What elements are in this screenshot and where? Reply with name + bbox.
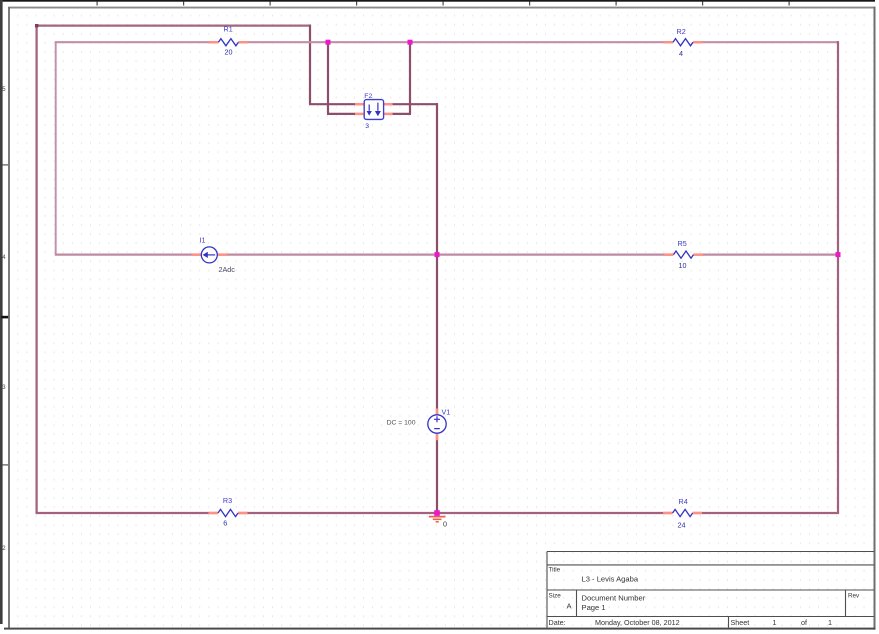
junction at ground x=437 y=513 <box>434 510 440 516</box>
resistor R4 <box>663 497 702 530</box>
svg-text:1: 1 <box>773 618 777 627</box>
CCCS F2 <box>355 93 393 130</box>
svg-text:Sheet: Sheet <box>731 618 750 627</box>
wire: F2 top-row left segment <box>309 103 356 105</box>
svg-text:Size: Size <box>549 593 562 600</box>
svg-text:2Adc: 2Adc <box>219 265 236 274</box>
svg-text:24: 24 <box>678 521 686 530</box>
svg-text:Rev: Rev <box>848 593 860 600</box>
svg-text:20: 20 <box>225 48 233 57</box>
svg-text:Date:: Date: <box>549 618 566 627</box>
wire: F2 top-row right segment <box>392 103 439 105</box>
svg-text:0: 0 <box>443 520 447 529</box>
svg-text:I1: I1 <box>200 236 206 245</box>
junction at x=328 y=42 <box>326 40 331 45</box>
junction at x=437 y=254.6 <box>435 252 440 257</box>
svg-text:R3: R3 <box>223 496 232 505</box>
voltage source V1 <box>387 408 451 441</box>
svg-text:of: of <box>801 618 807 627</box>
current source I1 <box>192 236 236 274</box>
svg-text:F2: F2 <box>364 93 372 100</box>
title block <box>547 552 874 628</box>
wire: center vertical x=437 (F2 to V1 to ground) <box>436 103 438 513</box>
wire: I1/R5 row (y=254.6) <box>55 254 838 256</box>
wire: outer loop left vertical (x=36.6) <box>35 24 38 513</box>
wire: right vertical (x=838) <box>837 41 839 513</box>
svg-text:R5: R5 <box>678 239 687 248</box>
resistor R1 <box>209 25 248 57</box>
svg-text:R4: R4 <box>679 497 688 506</box>
svg-text:Page 1: Page 1 <box>582 603 606 612</box>
svg-text:V1: V1 <box>442 408 451 417</box>
svg-text:R1: R1 <box>224 25 233 34</box>
wire: inner top (y=42.2) through R1 and R2 <box>56 41 838 43</box>
svg-text:1: 1 <box>828 618 832 627</box>
wire: outer loop top (y=25.6) <box>37 24 310 26</box>
ground 0 <box>429 513 447 529</box>
resistor R5 <box>664 239 703 270</box>
junction at x=838 y=254.6 <box>836 252 841 257</box>
resistor R3 <box>209 496 248 528</box>
svg-text:10: 10 <box>679 261 687 270</box>
svg-text:4: 4 <box>679 49 683 58</box>
svg-text:Monday, October 08, 2012: Monday, October 08, 2012 <box>595 618 680 627</box>
wire: bottom (y=513) through R3 and R4 <box>36 512 840 514</box>
svg-text:3: 3 <box>365 123 369 130</box>
wire: vertical x=310 from outer top down to F2 row <box>309 25 311 105</box>
left ruler ticks / zone letters <box>1 87 8 552</box>
svg-text:6: 6 <box>223 519 227 528</box>
top ruler ticks <box>97 2 790 6</box>
wire: F2 bottom-row right segment <box>392 113 412 115</box>
wire: inner left vertical (x=55.7) <box>55 41 57 255</box>
junction at x=410 y=42 <box>408 40 413 45</box>
svg-text:DC = 100: DC = 100 <box>387 419 416 426</box>
svg-text:L3 - Levis Agaba: L3 - Levis Agaba <box>582 575 639 584</box>
wire: F2 bottom-row left segment <box>327 113 356 115</box>
svg-text:Document Number: Document Number <box>582 594 646 603</box>
wire: vertical x=328 from inner top to F2 bottom row <box>327 42 329 114</box>
resistor R2 <box>664 27 703 58</box>
svg-text:R2: R2 <box>677 27 686 36</box>
svg-text:Title: Title <box>549 567 561 574</box>
wire: vertical x=410 from F2 bottom row up to inner top <box>409 42 411 114</box>
